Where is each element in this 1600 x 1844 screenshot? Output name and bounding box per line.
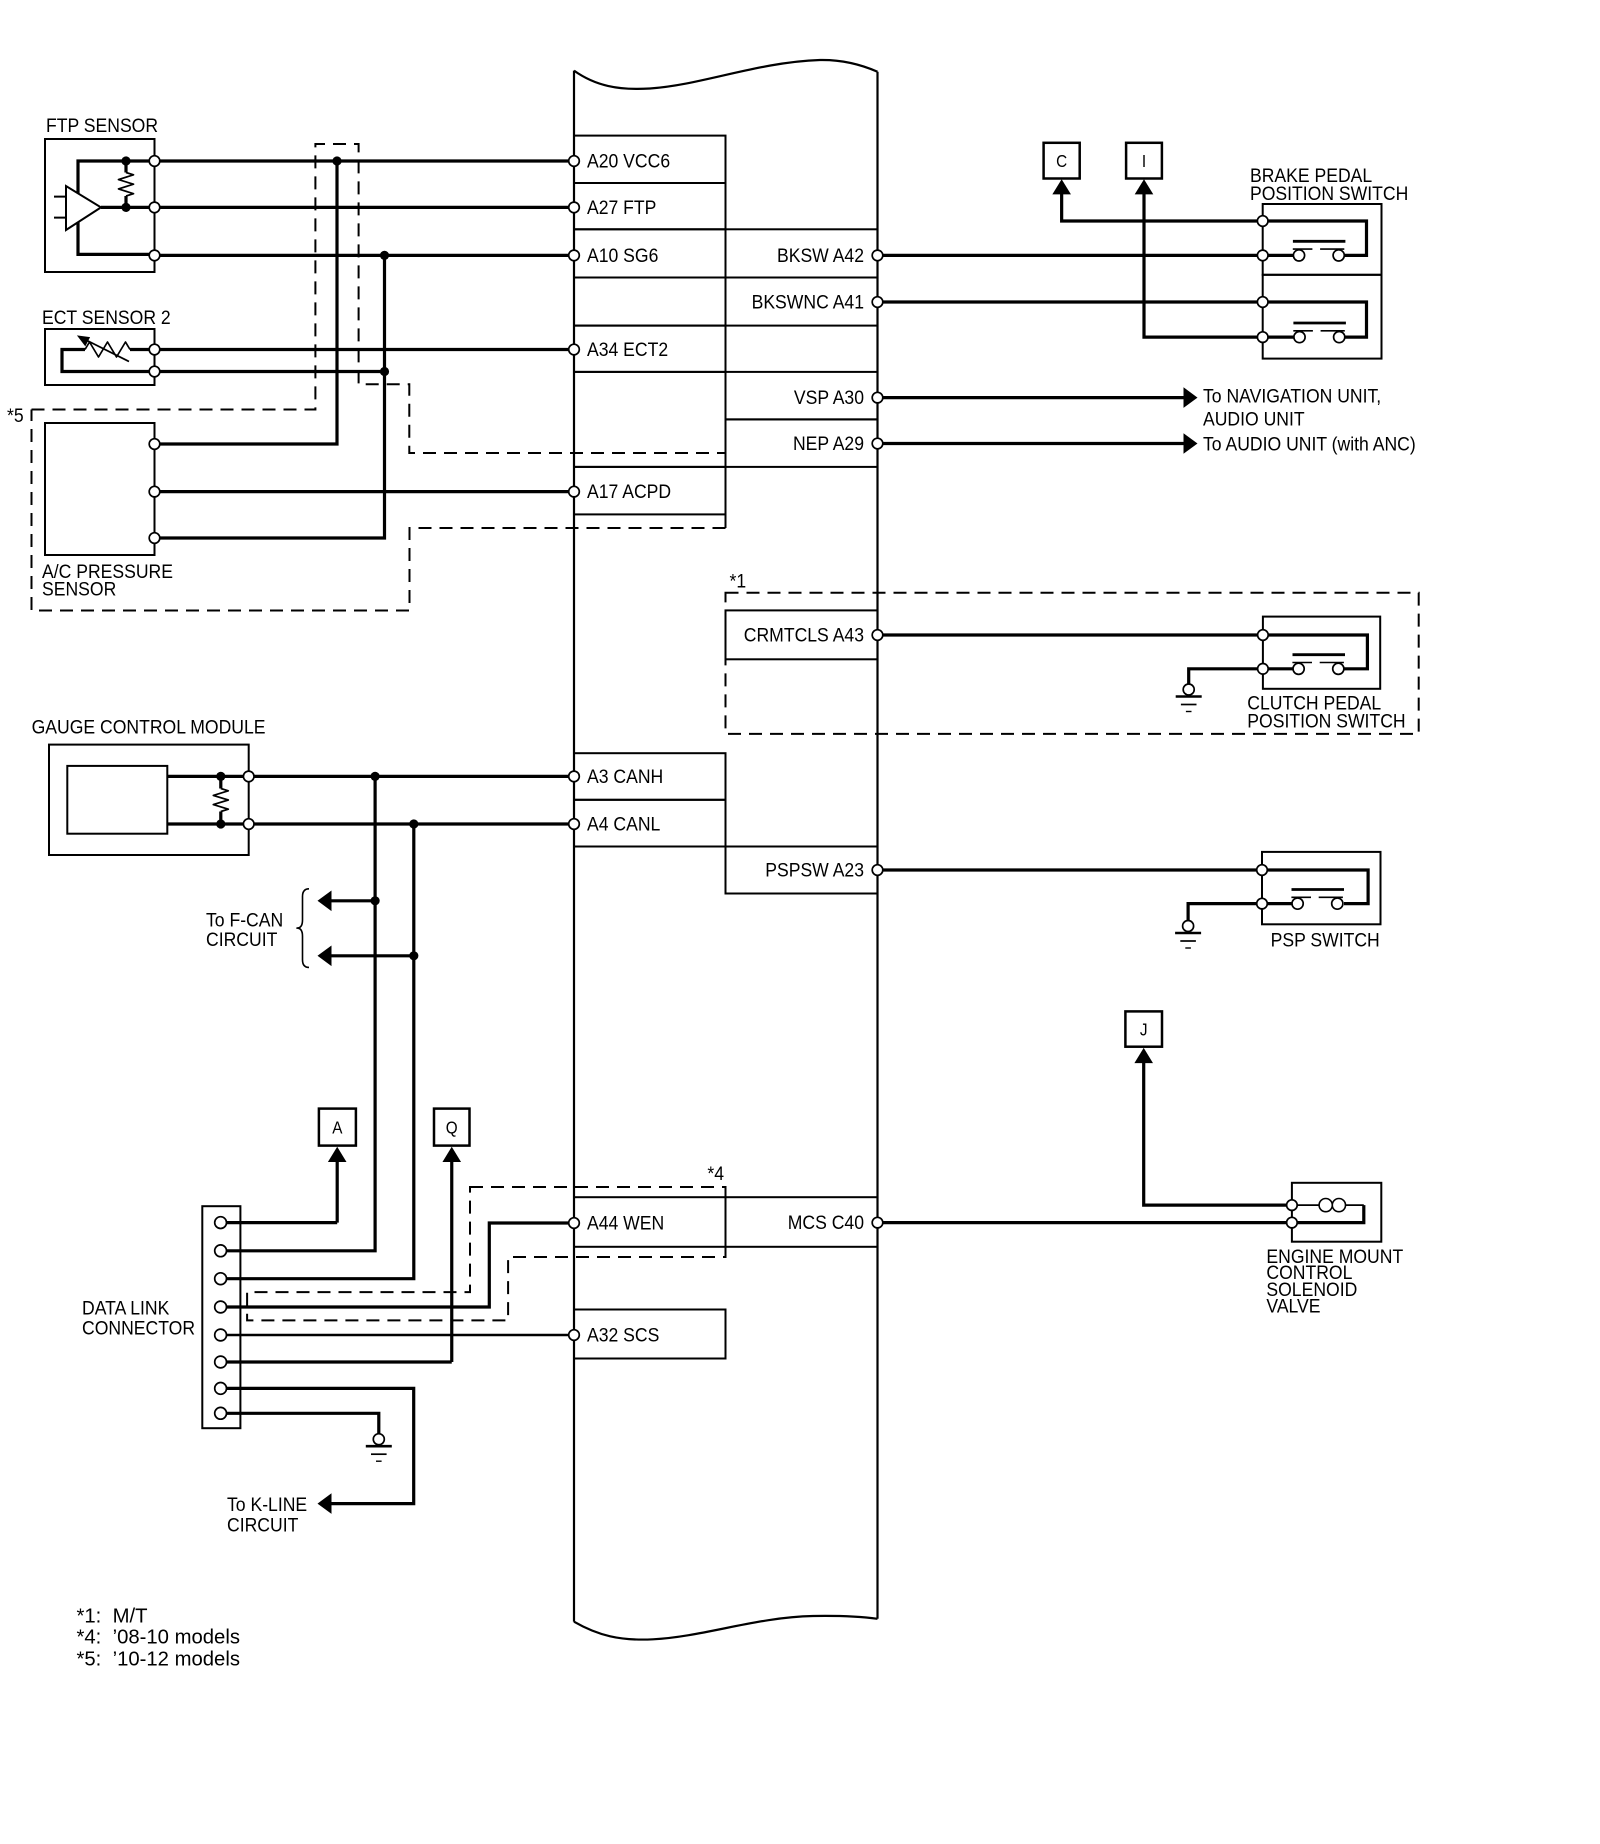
svg-text:POSITION SWITCH: POSITION SWITCH bbox=[1247, 710, 1405, 732]
svg-text:*1: *1 bbox=[730, 570, 747, 592]
svg-text:PSPSW A23: PSPSW A23 bbox=[765, 859, 864, 881]
svg-text:To K-LINE: To K-LINE bbox=[227, 1493, 307, 1515]
svg-text:C: C bbox=[1056, 152, 1067, 171]
svg-text:DATA LINK: DATA LINK bbox=[82, 1297, 170, 1319]
svg-text:*5: ’10-12 models: *5: ’10-12 models bbox=[77, 1649, 240, 1671]
svg-text:CONNECTOR: CONNECTOR bbox=[82, 1317, 195, 1339]
svg-text:VSP A30: VSP A30 bbox=[794, 386, 864, 408]
svg-text:GAUGE CONTROL MODULE: GAUGE CONTROL MODULE bbox=[32, 716, 266, 738]
svg-text:BKSW A42: BKSW A42 bbox=[777, 244, 864, 266]
svg-text:MCS C40: MCS C40 bbox=[788, 1211, 864, 1233]
svg-text:Q: Q bbox=[446, 1119, 458, 1138]
svg-text:A4 CANL: A4 CANL bbox=[587, 813, 660, 835]
svg-text:*4: *4 bbox=[707, 1162, 724, 1184]
svg-text:J: J bbox=[1140, 1020, 1148, 1039]
svg-text:CIRCUIT: CIRCUIT bbox=[227, 1514, 298, 1536]
svg-text:NEP A29: NEP A29 bbox=[793, 432, 864, 454]
svg-text:A17 ACPD: A17 ACPD bbox=[587, 480, 671, 502]
svg-text:*5: *5 bbox=[7, 404, 24, 426]
svg-text:A27 FTP: A27 FTP bbox=[587, 196, 656, 218]
svg-text:CIRCUIT: CIRCUIT bbox=[206, 928, 277, 950]
svg-text:I: I bbox=[1142, 152, 1146, 171]
svg-text:*4: ’08-10 models: *4: ’08-10 models bbox=[77, 1627, 240, 1649]
svg-text:A44 WEN: A44 WEN bbox=[587, 1212, 664, 1234]
svg-text:A: A bbox=[332, 1119, 342, 1138]
svg-text:FTP SENSOR: FTP SENSOR bbox=[46, 114, 158, 136]
svg-text:PSP SWITCH: PSP SWITCH bbox=[1271, 929, 1380, 951]
svg-text:VALVE: VALVE bbox=[1266, 1295, 1320, 1317]
svg-text:AUDIO UNIT: AUDIO UNIT bbox=[1203, 408, 1305, 430]
svg-text:*1: M/T: *1: M/T bbox=[77, 1606, 148, 1628]
svg-text:A32 SCS: A32 SCS bbox=[587, 1324, 659, 1346]
svg-text:A34 ECT2: A34 ECT2 bbox=[587, 338, 668, 360]
svg-text:BKSWNC A41: BKSWNC A41 bbox=[752, 291, 864, 313]
svg-text:A3 CANH: A3 CANH bbox=[587, 765, 663, 787]
svg-text:CRMTCLS A43: CRMTCLS A43 bbox=[744, 624, 864, 646]
svg-text:ECT SENSOR 2: ECT SENSOR 2 bbox=[42, 306, 171, 328]
svg-text:To NAVIGATION UNIT,: To NAVIGATION UNIT, bbox=[1203, 385, 1381, 407]
svg-text:A20 VCC6: A20 VCC6 bbox=[587, 150, 670, 172]
svg-text:To AUDIO UNIT (with ANC): To AUDIO UNIT (with ANC) bbox=[1203, 433, 1416, 455]
svg-text:SENSOR: SENSOR bbox=[42, 578, 116, 600]
svg-text:A10 SG6: A10 SG6 bbox=[587, 244, 658, 266]
svg-text:POSITION SWITCH: POSITION SWITCH bbox=[1250, 182, 1408, 204]
